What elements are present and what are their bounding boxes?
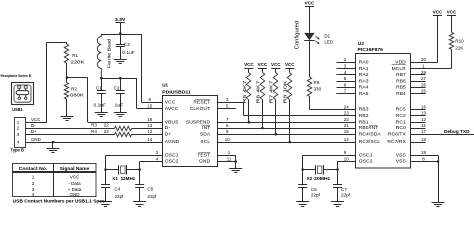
svg-text:14: 14 xyxy=(344,137,349,142)
svg-text:3.3V: 3.3V xyxy=(115,17,126,22)
svg-text:Receptacle Series B: Receptacle Series B xyxy=(1,74,32,78)
svg-text:AGND: AGND xyxy=(165,139,180,145)
svg-text:AVCC: AVCC xyxy=(165,106,179,112)
svg-text:16: 16 xyxy=(147,117,152,122)
svg-text:RA4: RA4 xyxy=(359,85,369,91)
svg-text:OSC1: OSC1 xyxy=(359,152,373,158)
svg-text:12: 12 xyxy=(421,117,426,122)
svg-text:RA1: RA1 xyxy=(359,66,369,72)
svg-text:R1: R1 xyxy=(72,53,78,58)
svg-text:15: 15 xyxy=(147,104,152,109)
svg-text:VCC: VCC xyxy=(244,62,254,67)
svg-text:RB5: RB5 xyxy=(396,85,406,91)
svg-text:D+: D+ xyxy=(165,131,172,137)
svg-text:RA2: RA2 xyxy=(359,72,369,78)
svg-text:1uF: 1uF xyxy=(115,103,124,108)
svg-text:PIC16F876: PIC16F876 xyxy=(358,47,384,52)
svg-text:RB3: RB3 xyxy=(359,107,369,113)
svg-text:RA3: RA3 xyxy=(359,78,369,84)
svg-text:VSS: VSS xyxy=(396,152,407,158)
svg-text:RC3/SCL: RC3/SCL xyxy=(359,139,381,145)
svg-text:GND: GND xyxy=(199,159,211,165)
svg-text:C7: C7 xyxy=(341,187,347,192)
svg-text:22pf: 22pf xyxy=(311,192,321,197)
svg-text:X1: X1 xyxy=(112,176,118,181)
svg-text:18: 18 xyxy=(421,137,426,142)
svg-text:PDIUSBD11: PDIUSBD11 xyxy=(162,89,191,94)
svg-text:RB4: RB4 xyxy=(396,91,406,97)
svg-text:R5 4K7: R5 4K7 xyxy=(242,80,247,104)
svg-text:RB0/INT: RB0/INT xyxy=(359,125,378,131)
svg-text:OSC2: OSC2 xyxy=(165,159,179,165)
svg-text:VCC: VCC xyxy=(165,100,176,106)
svg-text:VCC: VCC xyxy=(305,1,315,6)
svg-text:MCLR: MCLR xyxy=(392,66,407,72)
svg-text:USB1: USB1 xyxy=(12,107,23,112)
svg-text:USB Contact Numbers per USB1.1: USB Contact Numbers per USB1.1 Spec xyxy=(13,198,105,203)
svg-text:VCC: VCC xyxy=(447,10,457,15)
svg-text:13: 13 xyxy=(147,123,152,128)
svg-text:R10: R10 xyxy=(455,39,464,44)
svg-text:15: 15 xyxy=(344,129,349,134)
svg-text:U1: U1 xyxy=(162,82,168,87)
svg-text:D+: D+ xyxy=(31,129,37,134)
svg-text:RB2: RB2 xyxy=(359,113,369,119)
svg-text:22: 22 xyxy=(104,129,110,134)
svg-text:SUSPEND: SUSPEND xyxy=(186,119,211,125)
svg-text:22: 22 xyxy=(104,123,110,128)
svg-text:SCL: SCL xyxy=(200,139,210,145)
svg-text:330: 330 xyxy=(314,87,322,92)
svg-text:SDA: SDA xyxy=(200,131,211,137)
svg-text:11: 11 xyxy=(421,123,426,128)
svg-text:X2: X2 xyxy=(307,176,313,181)
svg-text:21: 21 xyxy=(344,123,349,128)
svg-text:22pf: 22pf xyxy=(147,194,157,199)
svg-text:Debug TXD: Debug TXD xyxy=(444,129,470,134)
svg-text:RA5: RA5 xyxy=(359,91,369,97)
svg-text:RC7/RX: RC7/RX xyxy=(387,139,406,145)
svg-text:R3: R3 xyxy=(91,123,97,128)
svg-text:20: 20 xyxy=(421,57,426,62)
svg-text:11: 11 xyxy=(227,156,232,161)
svg-text:VCC: VCC xyxy=(433,10,443,15)
svg-text:VCC: VCC xyxy=(258,62,268,67)
svg-text:24: 24 xyxy=(344,104,349,109)
svg-text:C2: C2 xyxy=(114,85,120,90)
svg-text:14: 14 xyxy=(147,137,152,142)
svg-text:RC0: RC0 xyxy=(396,125,406,131)
svg-text:C6: C6 xyxy=(311,187,317,192)
svg-text:CLKOUT: CLKOUT xyxy=(190,106,210,112)
svg-text:12MHz: 12MHz xyxy=(121,176,136,181)
svg-text:RA0: RA0 xyxy=(359,60,369,66)
svg-text:VBUS: VBUS xyxy=(165,119,179,125)
svg-text:25: 25 xyxy=(421,89,426,94)
svg-text:RB1: RB1 xyxy=(359,119,369,125)
svg-text:Ferrite Bead: Ferrite Bead xyxy=(106,39,111,68)
svg-text:26: 26 xyxy=(421,82,426,87)
svg-text:VSS: VSS xyxy=(396,159,407,165)
svg-text:RC6/TX: RC6/TX xyxy=(388,131,407,137)
svg-text:C4: C4 xyxy=(115,187,121,192)
svg-text:VCC: VCC xyxy=(70,175,80,180)
svg-text:22: 22 xyxy=(344,117,349,122)
svg-text:220K: 220K xyxy=(71,60,86,65)
svg-text:16: 16 xyxy=(421,104,426,109)
svg-text:TEST: TEST xyxy=(197,152,210,158)
svg-text:D-: D- xyxy=(31,123,36,128)
svg-text:RB6: RB6 xyxy=(396,78,406,84)
svg-text:22pf: 22pf xyxy=(341,192,351,197)
svg-text:28: 28 xyxy=(421,70,426,75)
svg-text:13: 13 xyxy=(421,111,426,116)
svg-text:0.1uF: 0.1uF xyxy=(122,50,135,55)
svg-text:U2: U2 xyxy=(358,41,364,46)
svg-text:RB7: RB7 xyxy=(396,72,406,78)
svg-text:VCC: VCC xyxy=(31,117,40,122)
svg-text:23: 23 xyxy=(344,111,349,116)
svg-text:C3: C3 xyxy=(124,42,130,47)
svg-text:Contact No.: Contact No. xyxy=(19,166,48,171)
svg-text:22K: 22K xyxy=(455,45,464,50)
svg-text:680K: 680K xyxy=(70,93,85,98)
svg-text:R4: R4 xyxy=(91,129,97,134)
svg-text:GND: GND xyxy=(31,137,41,142)
svg-text:R9: R9 xyxy=(314,80,320,85)
svg-text:20MHz: 20MHz xyxy=(314,176,331,181)
svg-text:D-: D- xyxy=(165,125,171,131)
svg-text:10: 10 xyxy=(225,137,230,142)
svg-text:22pf: 22pf xyxy=(115,194,125,199)
svg-text:LED: LED xyxy=(324,39,334,44)
svg-text:- Data: - Data xyxy=(68,181,81,186)
svg-text:RC4/SDA: RC4/SDA xyxy=(359,131,382,137)
svg-text:C5: C5 xyxy=(147,187,153,192)
svg-text:OSC2: OSC2 xyxy=(359,159,373,165)
svg-text:27: 27 xyxy=(421,76,426,81)
svg-text:RC5: RC5 xyxy=(396,107,406,113)
svg-text:RC2: RC2 xyxy=(396,113,406,119)
svg-text:VCC: VCC xyxy=(271,62,281,67)
svg-text:D1: D1 xyxy=(324,34,330,39)
svg-text:12: 12 xyxy=(147,129,152,134)
svg-text:17: 17 xyxy=(421,129,426,134)
svg-text:0.1uF: 0.1uF xyxy=(94,103,107,108)
svg-text:VCC: VCC xyxy=(285,62,295,67)
svg-text:C1: C1 xyxy=(96,85,102,90)
svg-text:R8 10K: R8 10K xyxy=(283,79,288,103)
svg-text:RESET: RESET xyxy=(193,100,210,106)
svg-text:R6 4K7: R6 4K7 xyxy=(255,80,260,104)
svg-text:RC1: RC1 xyxy=(396,119,406,125)
svg-text:Type B: Type B xyxy=(11,148,25,153)
svg-text:Signal Name: Signal Name xyxy=(60,166,90,171)
svg-text:INT: INT xyxy=(202,125,210,131)
svg-text:Configured: Configured xyxy=(295,21,301,50)
svg-text:OSC1: OSC1 xyxy=(165,152,179,158)
svg-text:19: 19 xyxy=(421,150,426,155)
svg-text:R7 4K7: R7 4K7 xyxy=(269,80,274,104)
svg-text:10: 10 xyxy=(344,156,349,161)
svg-text:GND: GND xyxy=(70,192,81,197)
svg-text:R2: R2 xyxy=(71,87,77,92)
